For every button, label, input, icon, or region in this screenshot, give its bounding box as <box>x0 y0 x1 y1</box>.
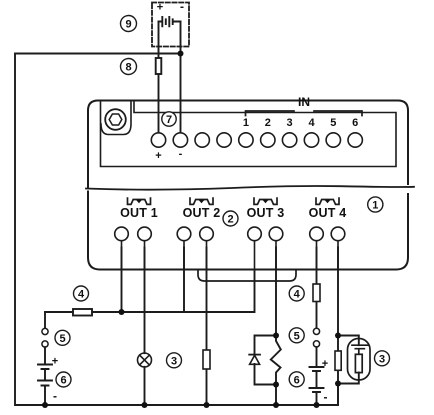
svg-text:2: 2 <box>265 117 271 129</box>
svg-text:IN: IN <box>298 95 310 109</box>
svg-text:OUT 2: OUT 2 <box>183 206 221 220</box>
svg-text:5: 5 <box>294 330 300 342</box>
svg-text:OUT 1: OUT 1 <box>120 206 158 220</box>
svg-text:1: 1 <box>372 200 378 212</box>
svg-text:6: 6 <box>352 117 358 129</box>
svg-text:+: + <box>322 358 328 370</box>
svg-text:4: 4 <box>308 117 315 129</box>
svg-text:3: 3 <box>287 117 293 129</box>
svg-text:9: 9 <box>125 19 131 31</box>
svg-text:+: + <box>157 2 163 14</box>
svg-text:-: - <box>179 148 183 160</box>
svg-text:2: 2 <box>227 214 233 226</box>
svg-text:OUT 3: OUT 3 <box>247 206 285 220</box>
svg-text:+: + <box>155 150 161 162</box>
svg-text:5: 5 <box>59 333 65 345</box>
svg-text:6: 6 <box>294 374 300 386</box>
svg-text:8: 8 <box>125 62 131 74</box>
svg-text:3: 3 <box>171 355 177 367</box>
svg-text:OUT 4: OUT 4 <box>309 206 347 220</box>
svg-text:4: 4 <box>294 289 301 301</box>
svg-text:+: + <box>52 356 58 368</box>
svg-text:-: - <box>180 0 184 14</box>
svg-text:4: 4 <box>78 289 85 301</box>
svg-text:1: 1 <box>243 117 249 129</box>
svg-text:7: 7 <box>166 114 172 126</box>
svg-text:6: 6 <box>60 375 66 387</box>
svg-text:-: - <box>324 390 328 404</box>
svg-text:-: - <box>53 389 57 403</box>
svg-text:3: 3 <box>379 353 385 365</box>
svg-text:5: 5 <box>330 117 336 129</box>
